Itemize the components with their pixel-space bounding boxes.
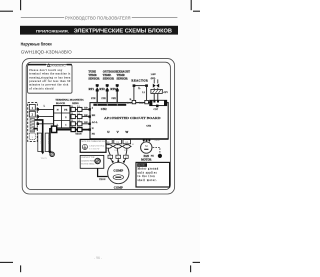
svg-text:WARNING: WARNING [51, 63, 66, 67]
corner crop marks [0, 0, 200, 272]
svg-text:CN2: CN2 [101, 107, 107, 111]
svg-text:YEGN: YEGN [99, 179, 106, 181]
terminal 1 [29, 104, 35, 110]
connector triangle under C2 [48, 151, 51, 154]
svg-text:SCREW: SCREW [89, 149, 99, 151]
ground stub from hatched terminal [33, 128, 37, 130]
svg-text:L1: L1 [77, 126, 79, 128]
magnetic ring label [70, 99, 84, 106]
svg-text:YEGN: YEGN [41, 158, 47, 160]
wire N from terminal to block [37, 116, 53, 118]
svg-text:AP1:PRINTED CIRCUIT BOARD: AP1:PRINTED CIRCUIT BOARD [104, 116, 161, 120]
svg-text:COMP: COMP [113, 169, 123, 173]
svg-text:L2: L2 [115, 150, 117, 152]
svg-text:YEGN-BK: YEGN-BK [47, 135, 49, 144]
dashed PE wire from fan [153, 147, 160, 153]
legend box grounding [80, 139, 106, 152]
note box [136, 162, 170, 187]
warning box [28, 63, 72, 93]
svg-text:L1: L1 [71, 120, 73, 122]
svg-text:L1: L1 [71, 126, 73, 128]
thermistor RT2 plug [99, 84, 108, 92]
PCB U V W pads [107, 130, 129, 134]
reactor wire 1 [133, 86, 135, 101]
svg-text:terminal when the machine is: terminal when the machine is [29, 73, 70, 76]
svg-text:L1: L1 [77, 113, 79, 115]
svg-text:PE: PE [64, 109, 67, 112]
terminal block grid [54, 106, 70, 128]
PE screw [151, 154, 162, 158]
fan motor M1 [141, 142, 152, 153]
svg-text:РУКОВОДСТВО ПОЛЬЗОВАТЕЛЯ: РУКОВОДСТВО ПОЛЬЗОВАТЕЛЯ [65, 15, 131, 20]
wire 3 from terminal to block [37, 123, 53, 125]
fan motor pins [143, 139, 150, 141]
svg-text:L1-2: L1-2 [139, 102, 143, 104]
compressor wire W [124, 144, 127, 162]
compressor pin labels U V W [108, 155, 128, 159]
svg-text:minutes to prevent the risk: minutes to prevent the risk [29, 84, 69, 87]
compressor motor M [108, 162, 129, 183]
svg-text:SENSOR: SENSOR [103, 78, 115, 81]
svg-text:BK: BK [92, 114, 96, 117]
reactor wire 2 [146, 86, 148, 101]
svg-text:RING: RING [72, 102, 79, 105]
sensor labels: tube temp sensor RT1 [88, 71, 130, 81]
terminal 2 [29, 111, 35, 117]
svg-text:running,stopping or has been: running,stopping or has been [29, 76, 71, 79]
svg-text:1YE: 1YE [101, 97, 106, 100]
svg-text:L1: L1 [132, 144, 134, 146]
svg-text:RT3: RT3 [110, 87, 116, 91]
4YV wires to PCB [154, 94, 158, 101]
svg-text:BK: BK [84, 115, 88, 117]
svg-text:CONNECT THE: CONNECT THE [81, 157, 95, 159]
connector CN2 [93, 104, 126, 112]
svg-text:SENSOR: SENSOR [88, 78, 100, 81]
svg-text:REACTOR: REACTOR [131, 78, 148, 82]
connector triangle under C1 [41, 152, 44, 155]
svg-text:Motor ground: Motor ground [138, 168, 159, 171]
svg-text:GROUND WIRE: GROUND WIRE [81, 160, 95, 162]
connector lens U [104, 145, 113, 148]
svg-text:L: L [138, 86, 140, 90]
PCB pins left edge [89, 108, 91, 131]
reactor pin L1-2 [139, 100, 148, 104]
ground screw [41, 152, 55, 160]
svg-text:NOTE:THE SYMBOL MEANS: NOTE:THE SYMBOL MEANS [81, 140, 105, 143]
svg-text:BKBU: BKBU [155, 140, 161, 142]
fan motor wires [144, 139, 150, 142]
svg-text:CN7: CN7 [153, 108, 158, 111]
thick ground jumper [35, 120, 43, 152]
connector on PCB top edge [150, 100, 167, 111]
svg-text:GROUNDING: GROUNDING [89, 145, 105, 147]
svg-text:SENSOR: SENSOR [117, 78, 129, 81]
wire N row with magnetic rings [70, 113, 89, 119]
reactor pin L1-1 [127, 100, 136, 104]
svg-text:W: W [125, 157, 127, 159]
wire label tag 1 [38, 133, 42, 151]
svg-text:YEGN-BK: YEGN-BK [39, 135, 41, 144]
terminal pin nubs [37, 108, 39, 125]
PCB pin labels [92, 107, 98, 136]
svg-text:N: N [57, 109, 59, 112]
svg-text:N: N [92, 127, 94, 130]
compressor wire V [117, 144, 120, 161]
terminal block label [55, 99, 69, 106]
4YV coil (hatched) [151, 88, 168, 94]
svg-text:powered off for less than 30: powered off for less than 30 [29, 80, 71, 83]
svg-text:BN: BN [84, 122, 88, 124]
4-way valve wire labels [151, 74, 156, 80]
svg-text:RT2: RT2 [99, 87, 105, 91]
terminal block XT1 (dashed) [28, 102, 38, 141]
svg-text:Please don't touch any: Please don't touch any [29, 69, 63, 72]
svg-text:L3: L3 [124, 150, 126, 152]
reactor L [131, 78, 148, 94]
svg-text:TO THE SHELL: TO THE SHELL [81, 164, 95, 166]
header rule and running title [21, 15, 178, 20]
terminal 3 (dashed) [29, 133, 35, 139]
svg-text:RT1: RT1 [89, 87, 95, 91]
svg-text:PE: PE [151, 155, 154, 158]
compressor plug RD [123, 140, 131, 144]
wire 3 row with magnetic rings [70, 120, 89, 126]
svg-text:1-BU: 1-BU [151, 74, 156, 76]
compressor wire U [108, 144, 112, 162]
svg-text:L1: L1 [71, 113, 73, 115]
legend box protective earth [80, 155, 104, 168]
svg-text:(BU): (BU) [151, 77, 156, 80]
svg-text:to the iron: to the iron [138, 175, 156, 178]
wire L row with magnetic rings [70, 106, 89, 112]
junction node [49, 151, 51, 153]
svg-text:L1: L1 [77, 120, 79, 122]
svg-text:CN4: CN4 [146, 125, 152, 128]
sensor wire labels [91, 97, 132, 101]
thermistor RT3 plug [110, 84, 118, 92]
svg-text:YEGN: YEGN [75, 134, 82, 136]
sensor wires to CN2 [97, 92, 117, 104]
ground wire to compressor [98, 164, 108, 177]
chapter title bar [20, 20, 178, 37]
svg-text:of electric shock!: of electric shock! [29, 87, 54, 90]
svg-text:GWH18QD-K3DNA8B/O: GWH18QD-K3DNA8B/O [21, 49, 73, 54]
4YV connector plug [153, 79, 159, 87]
svg-text:L1: L1 [77, 106, 79, 108]
svg-text:PE: PE [92, 132, 95, 135]
svg-text:AC-L: AC-L [92, 121, 98, 124]
svg-text:L1: L1 [71, 106, 73, 108]
svg-text:4YV: 4YV [163, 91, 168, 94]
svg-text:MOTOR: MOTOR [141, 158, 151, 161]
svg-text:RD: RD [84, 108, 88, 110]
svg-text:3YE: 3YE [111, 97, 116, 100]
svg-text:COMP: COMP [114, 186, 123, 190]
fan motor label [141, 155, 151, 162]
svg-text:Наружные блоки: Наружные блоки [21, 40, 52, 46]
svg-text:BLOCK: BLOCK [56, 102, 65, 105]
svg-text:shell motor.: shell motor. [138, 179, 157, 182]
svg-text:FAN: FAN [144, 155, 149, 158]
connector lens V [113, 145, 122, 148]
wire L from terminal to block [37, 108, 53, 110]
compressor plug YE [114, 140, 122, 144]
compressor plug BU [105, 140, 113, 144]
thermistor RT1 plug [89, 84, 99, 92]
connector lens W [123, 145, 132, 148]
svg-text:- 96 -: - 96 - [94, 256, 102, 260]
ground terminal (hatched) [30, 119, 35, 133]
svg-text:only applies: only applies [138, 171, 157, 174]
svg-text:L1-1: L1-1 [127, 102, 131, 104]
compressor pins [112, 160, 125, 163]
svg-text:2YE: 2YE [91, 97, 96, 100]
ground wire row (thick) [50, 126, 89, 152]
wire label tag 2 [45, 133, 49, 151]
op PCB AP1 main board [90, 103, 168, 139]
